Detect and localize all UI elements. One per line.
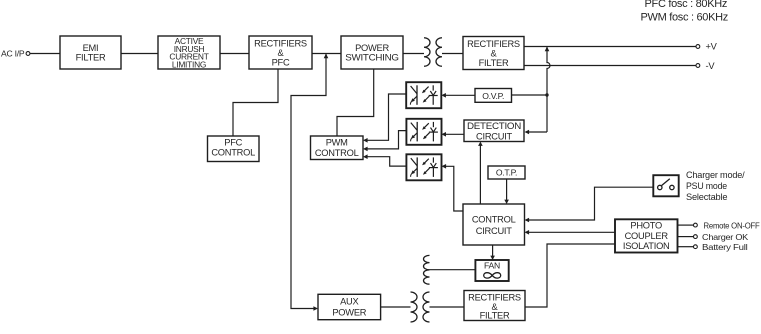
svg-text:POWER: POWER xyxy=(355,43,389,53)
block CONTROL CIRCUIT xyxy=(463,204,525,245)
wire PC1 to PWM CONTROL xyxy=(367,94,407,140)
wire PC3 to PWM CONTROL xyxy=(367,157,407,166)
svg-text:Charger mode/: Charger mode/ xyxy=(686,170,745,181)
node arrow into CONTROL CIRCUIT right pin2 xyxy=(525,230,530,235)
wire fan winding to FAN xyxy=(430,269,476,271)
wire O.V.P. to sense junction xyxy=(511,94,547,96)
wire O.V.P. to optocoupler PC1 xyxy=(445,94,475,96)
svg-text:FAN: FAN xyxy=(484,261,500,271)
wire voltage sense down with hop over -V line xyxy=(547,47,550,133)
wire AC input to EMI FILTER xyxy=(30,53,60,55)
wire -V output xyxy=(524,65,696,67)
svg-text:-V: -V xyxy=(706,61,716,71)
node sense tap arrow up at +V line xyxy=(545,47,550,52)
wire DETECTION CIRCUIT to optocoupler PC2 xyxy=(445,133,464,135)
wire O.T.P. to CONTROL CIRCUIT xyxy=(506,179,508,201)
svg-text:SWITCHING: SWITCHING xyxy=(345,53,399,63)
svg-text:AC I/P: AC I/P xyxy=(1,49,25,59)
wire PC2 to PWM CONTROL xyxy=(367,131,407,149)
svg-text:CONTROL: CONTROL xyxy=(315,148,359,158)
wire bus tap down to AUX POWER xyxy=(291,54,326,309)
transformer T2 primary winding xyxy=(411,292,418,322)
transformer T1 primary winding xyxy=(424,38,430,67)
node arrow into CONTROL CIRCUIT right pin1 xyxy=(525,218,530,223)
wire EMI FILTER to ACTIVE INRUSH xyxy=(121,53,158,55)
node arrow into FAN xyxy=(490,256,495,260)
block mode select switch SW1 xyxy=(653,175,678,196)
node Remote ON-OFF terminal xyxy=(694,220,760,230)
node arrow into PWM CONTROL pin3 xyxy=(363,154,368,159)
optocoupler PC2 xyxy=(406,119,441,145)
node bus tap arrow up at junction xyxy=(324,54,329,59)
svg-text:O.V.P.: O.V.P. xyxy=(482,91,504,101)
svg-text:DETECTION: DETECTION xyxy=(467,121,521,131)
wire +V output xyxy=(524,46,696,48)
block O.T.P. xyxy=(488,166,525,179)
block POWER SWITCHING xyxy=(341,36,403,69)
node Battery Full terminal xyxy=(694,242,748,252)
wire Remote ON-OFF xyxy=(678,224,694,226)
svg-text:LIMITING: LIMITING xyxy=(172,59,206,69)
node arrow into CONTROL CIRCUIT top xyxy=(504,200,509,204)
wire POWER SWITCHING to PWM CONTROL xyxy=(337,69,374,136)
svg-text:PSU mode: PSU mode xyxy=(686,181,727,192)
optocoupler PC3 xyxy=(406,154,441,180)
wire POWER SWITCHING to main transformer xyxy=(403,53,424,55)
wire switch SW1 to CONTROL CIRCUIT xyxy=(528,187,653,220)
wire RECTIFIERS & PFC to POWER SWITCHING xyxy=(312,53,341,55)
block RECTIFIERS & PFC xyxy=(249,36,312,69)
svg-text:Charger OK: Charger OK xyxy=(702,232,749,242)
svg-text:PWM fosc : 60KHz: PWM fosc : 60KHz xyxy=(641,12,729,24)
svg-text:POWER: POWER xyxy=(332,307,366,317)
svg-text:Remote ON-OFF: Remote ON-OFF xyxy=(704,220,760,230)
node arrow into PWM CONTROL pin1 xyxy=(363,138,368,143)
svg-text:+V: +V xyxy=(706,41,718,51)
label Charger mode / PSU mode Selectable xyxy=(686,170,745,203)
block PHOTO COUPLER ISOLATION xyxy=(615,219,678,252)
wire RECTIFIERS & PFC to PFC CONTROL xyxy=(233,69,278,136)
svg-text:Battery Full: Battery Full xyxy=(702,242,748,252)
wire aux rectifiers to PHOTO COUPLER ISOLATION xyxy=(525,244,615,307)
block AUX POWER xyxy=(318,294,381,319)
node AC I/P input terminal xyxy=(1,49,30,59)
node arrow into AUX POWER xyxy=(313,306,318,311)
optocoupler PC1 xyxy=(406,82,441,108)
wire CONTROL CIRCUIT to PC3 xyxy=(445,166,463,211)
block DETECTION CIRCUIT xyxy=(464,120,524,142)
node Charger OK terminal xyxy=(694,232,749,242)
wire sense to DETECTION CIRCUIT xyxy=(528,131,548,133)
node junction dot OVP sense xyxy=(545,93,548,96)
wire CONTROL CIRCUIT to FAN xyxy=(492,245,494,257)
wire AUX POWER to transformer T2 xyxy=(381,306,411,308)
wire ACTIVE INRUSH to RECTIFIERS & PFC xyxy=(220,53,249,55)
svg-text:CIRCUIT: CIRCUIT xyxy=(476,226,513,236)
block O.V.P. xyxy=(475,89,512,103)
svg-text:O.T.P.: O.T.P. xyxy=(496,168,517,178)
node arrow into PC1 xyxy=(441,93,446,98)
svg-text:PFC: PFC xyxy=(272,57,290,67)
node arrow into PC2 xyxy=(441,132,446,137)
svg-text:PHOTO: PHOTO xyxy=(630,221,662,231)
svg-text:AUX: AUX xyxy=(340,296,358,306)
block RECTIFIERS & FILTER (main output) xyxy=(463,37,524,70)
svg-text:FILTER: FILTER xyxy=(480,311,510,321)
svg-text:CIRCUIT: CIRCUIT xyxy=(476,131,513,141)
svg-text:RECTIFIERS: RECTIFIERS xyxy=(254,38,307,48)
svg-text:RECTIFIERS: RECTIFIERS xyxy=(467,39,520,49)
block PWM CONTROL xyxy=(311,136,364,160)
svg-text:FILTER: FILTER xyxy=(479,58,509,68)
svg-text:EMI: EMI xyxy=(83,43,99,53)
block PFC CONTROL xyxy=(208,136,260,162)
block RECTIFIERS & FILTER (aux output) xyxy=(464,291,525,321)
svg-text:CONTROL: CONTROL xyxy=(211,148,255,158)
transformer T1 secondary winding xyxy=(436,38,442,67)
wire PHOTO COUPLER ISOLATION to CONTROL CIRCUIT xyxy=(528,231,615,233)
block EMI FILTER xyxy=(60,36,121,69)
transformer T2 secondary winding xyxy=(423,292,429,322)
node arrow into DETECTION CIRCUIT xyxy=(525,130,530,135)
wire transformer T1 to RECTIFIERS & FILTER xyxy=(442,53,463,55)
label PFC fosc / PWM fosc xyxy=(641,0,729,24)
wire Battery Full xyxy=(678,246,694,248)
transformer T2 fan winding xyxy=(424,255,430,284)
block ACTIVE INRUSH CURRENT LIMITING xyxy=(158,36,220,69)
svg-text:COUPLER: COUPLER xyxy=(625,231,669,241)
node arrow into PC3 xyxy=(442,164,447,169)
svg-text:&: & xyxy=(491,48,498,58)
svg-text:PFC fosc : 80KHz: PFC fosc : 80KHz xyxy=(645,0,728,10)
wire Charger OK xyxy=(678,236,694,238)
svg-text:ISOLATION: ISOLATION xyxy=(623,241,670,251)
svg-text:PWM: PWM xyxy=(326,138,348,148)
svg-text:&: & xyxy=(278,48,285,58)
block FAN xyxy=(475,260,508,281)
node arrow into PWM CONTROL pin2 xyxy=(363,147,368,152)
node arrow into DETECTION CIRCUIT bottom xyxy=(478,142,483,146)
svg-text:CONTROL: CONTROL xyxy=(472,214,516,224)
svg-text:FILTER: FILTER xyxy=(76,53,106,63)
svg-text:Selectable: Selectable xyxy=(686,192,727,203)
node -V terminal xyxy=(696,61,715,71)
wire CONTROL CIRCUIT to DETECTION CIRCUIT xyxy=(479,145,481,204)
svg-text:PFC: PFC xyxy=(224,138,242,148)
node +V terminal xyxy=(696,41,718,51)
wire transformer T2 to RECTIFIERS & FILTER aux xyxy=(430,306,465,308)
